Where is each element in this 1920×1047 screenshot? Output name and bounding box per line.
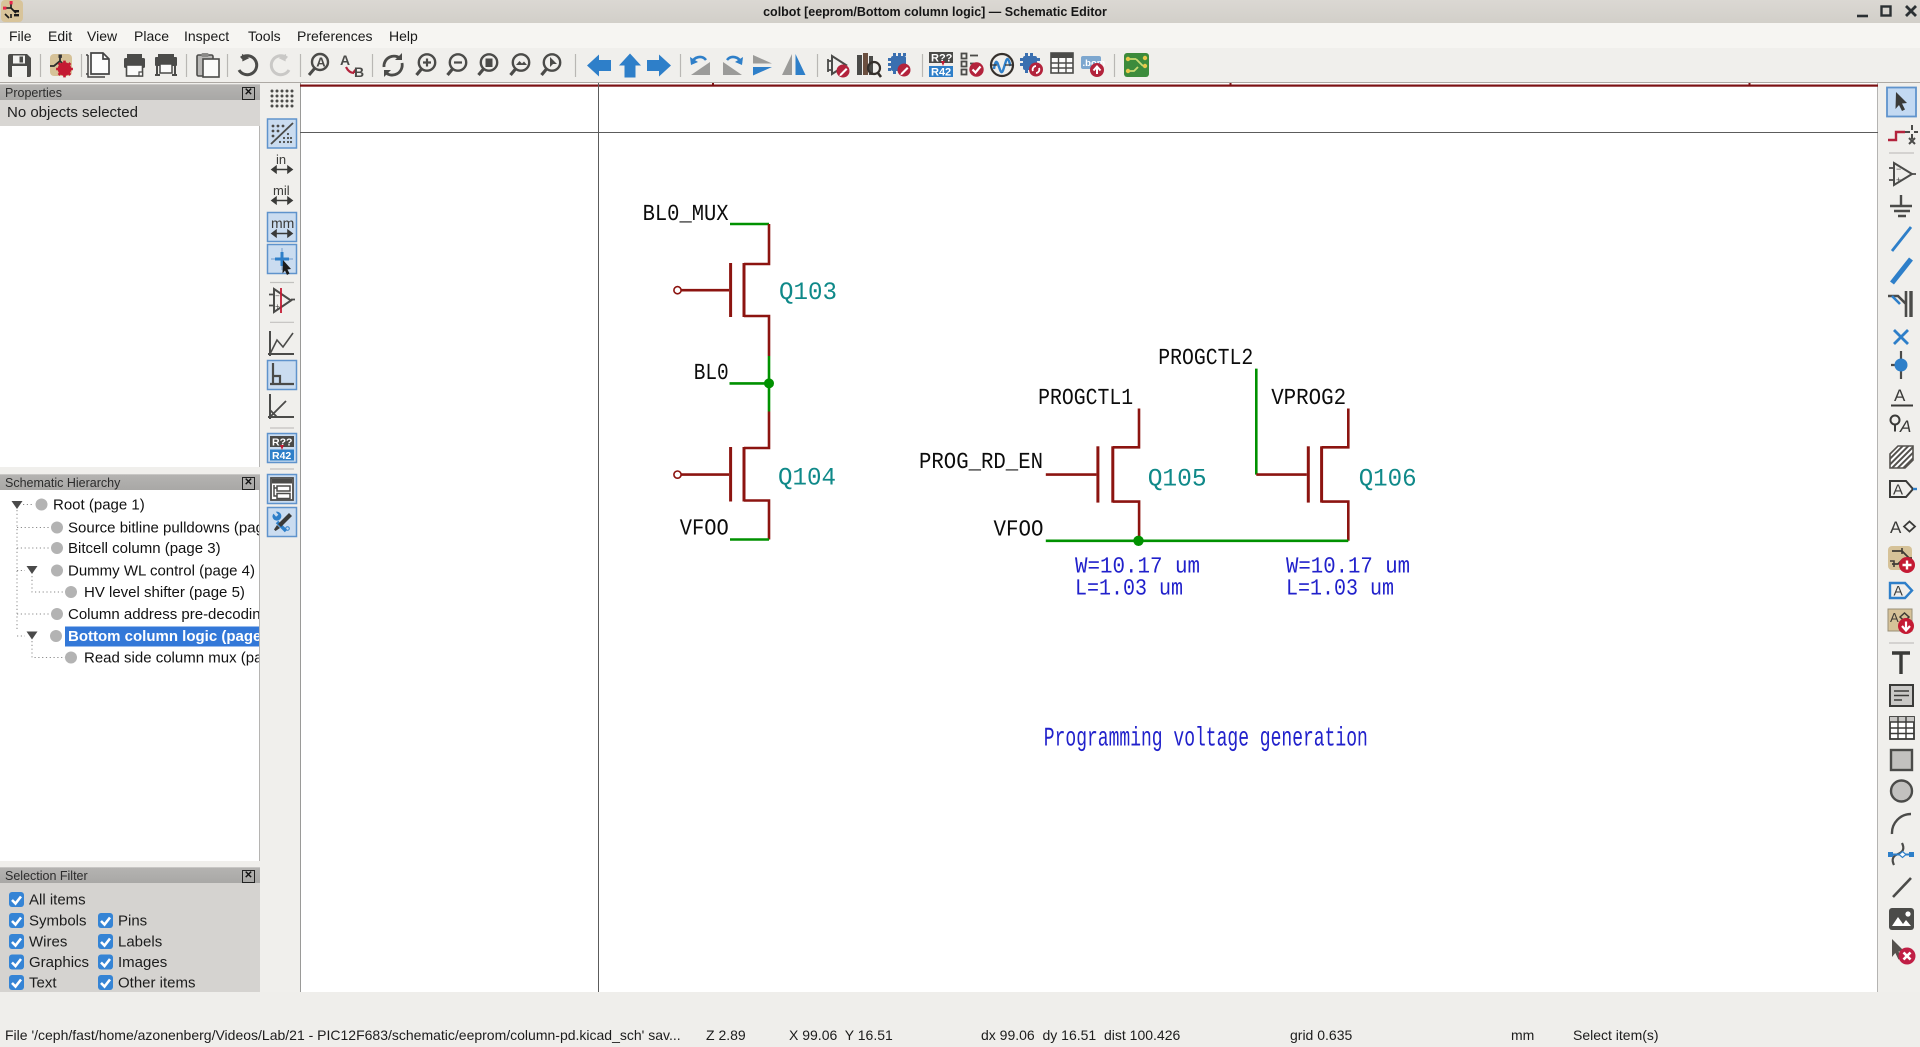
no connect tool bbox=[1894, 330, 1908, 344]
net label tool bbox=[1891, 386, 1913, 406]
svg-text:Column address pre-decoding: Column address pre-decoding bbox=[68, 606, 259, 623]
svg-text:Q104: Q104 bbox=[778, 464, 836, 493]
image tool bbox=[1889, 908, 1914, 930]
transistor Q103 bbox=[674, 224, 769, 356]
svg-text:A: A bbox=[340, 52, 350, 68]
transistor Q104 bbox=[674, 412, 769, 540]
channel Q106 bbox=[1320, 446, 1323, 502]
mirror h bbox=[782, 54, 806, 75]
svg-text:Bitcell column (page 3): Bitcell column (page 3) bbox=[68, 540, 221, 557]
zoom in bbox=[417, 54, 436, 75]
paste bbox=[197, 53, 219, 77]
unit mils bbox=[272, 183, 292, 204]
svg-text:Dummy WL control (page 4): Dummy WL control (page 4) bbox=[68, 563, 255, 580]
save bbox=[8, 54, 31, 77]
svg-text:Q105: Q105 bbox=[1148, 465, 1207, 494]
svg-text:L=1.03 um: L=1.03 um bbox=[1286, 575, 1394, 601]
svg-text:Pins: Pins bbox=[118, 913, 147, 930]
svg-text:Symbols: Symbols bbox=[29, 913, 87, 930]
browse libraries bbox=[857, 53, 881, 77]
arc tool bbox=[1892, 814, 1911, 834]
svg-text:PROGCTL1: PROGCTL1 bbox=[1038, 385, 1133, 411]
svg-text:Wires: Wires bbox=[29, 934, 67, 951]
gate bar Q104 bbox=[729, 447, 732, 502]
page setup bbox=[86, 53, 109, 77]
highlight net tool bbox=[1888, 125, 1918, 144]
hierarchical label tool bbox=[1890, 481, 1917, 499]
export bom bbox=[1081, 56, 1105, 77]
pin source Q105 bbox=[1113, 502, 1139, 541]
place symbol tool bbox=[1889, 163, 1916, 185]
svg-text:VFOO: VFOO bbox=[680, 515, 729, 541]
pin drain Q103 bbox=[744, 224, 769, 264]
svg-text:Bottom column logic (page: Bottom column logic (page bbox=[68, 628, 259, 645]
bom table bbox=[1051, 53, 1073, 73]
zoom fit objects bbox=[511, 54, 530, 75]
redo (disabled) bbox=[271, 52, 289, 74]
gate bar Q105 bbox=[1096, 446, 1099, 502]
bezier tool bbox=[1888, 843, 1914, 865]
svg-text:A: A bbox=[1890, 518, 1902, 537]
svg-text:+: + bbox=[275, 302, 280, 311]
junction tool bbox=[1891, 351, 1908, 379]
svg-text:Programming voltage generation: Programming voltage generation bbox=[1044, 724, 1368, 754]
junction BL0 bbox=[764, 378, 774, 388]
zoom fit page bbox=[479, 54, 498, 75]
mirror v bbox=[753, 55, 772, 76]
rotate cw bbox=[723, 57, 743, 75]
annotate bbox=[929, 52, 953, 79]
properties panel toggle (selected) bbox=[268, 508, 297, 537]
svg-text:Labels: Labels bbox=[118, 934, 162, 951]
pin drain Q106 bbox=[1322, 409, 1349, 448]
svg-text:BL0_MUX: BL0_MUX bbox=[643, 201, 729, 227]
import sheet pin tool bbox=[1888, 546, 1915, 573]
gate bar Q106 bbox=[1307, 446, 1310, 502]
assign footprints bbox=[1020, 53, 1043, 77]
svg-text:Root (page 1): Root (page 1) bbox=[53, 497, 145, 514]
table tool bbox=[1890, 717, 1914, 739]
svg-text:HV level shifter (page 5): HV level shifter (page 5) bbox=[84, 584, 245, 601]
svg-text:BL0: BL0 bbox=[694, 360, 729, 386]
pin gate Q104 bbox=[682, 473, 730, 476]
svg-text:A: A bbox=[1890, 610, 1899, 625]
svg-text:R42: R42 bbox=[931, 67, 951, 79]
full cursor toggle (selected) bbox=[268, 245, 297, 276]
channel Q105 bbox=[1111, 446, 1114, 502]
nav up bbox=[619, 54, 641, 78]
place power port tool bbox=[1890, 195, 1912, 216]
wire BL0 vertical bbox=[768, 356, 771, 412]
unit mm (selected) bbox=[268, 213, 297, 242]
svg-text:Read side column mux (pag: Read side column mux (pag bbox=[84, 650, 259, 667]
svg-text:Other items: Other items bbox=[118, 975, 196, 992]
svg-text:Source bitline pulldowns (pag: Source bitline pulldowns (pag bbox=[68, 520, 259, 537]
pin gate Q103 bbox=[682, 289, 730, 292]
text box tool bbox=[1890, 685, 1913, 706]
simulator bbox=[991, 54, 1013, 76]
svg-text:VPROG2: VPROG2 bbox=[1271, 385, 1346, 411]
45deg wires icon bbox=[268, 394, 294, 419]
pin source Q106 bbox=[1322, 502, 1349, 541]
junction VFOO bbox=[1133, 536, 1143, 546]
rotate ccw bbox=[690, 57, 710, 75]
pin-end circle gate Q104 bbox=[674, 471, 681, 478]
text tool bbox=[1892, 653, 1910, 674]
select tool (active) bbox=[1887, 88, 1916, 117]
pin gate Q106 bbox=[1256, 473, 1307, 476]
svg-text:Q106: Q106 bbox=[1359, 465, 1417, 494]
svg-text:mm: mm bbox=[271, 215, 294, 231]
svg-text:A: A bbox=[1894, 583, 1904, 599]
svg-text:All items: All items bbox=[29, 892, 86, 909]
rectangle tool bbox=[1891, 750, 1912, 770]
undo bbox=[239, 52, 257, 74]
Selection Filter panel bbox=[0, 867, 260, 884]
svg-text:+: + bbox=[1896, 175, 1901, 185]
svg-text:Text: Text bbox=[29, 975, 57, 992]
plot bbox=[155, 54, 177, 75]
global label tool bbox=[1891, 416, 1912, 437]
svg-text:A: A bbox=[1894, 386, 1906, 405]
svg-text:−: − bbox=[1896, 164, 1901, 174]
svg-text:VFOO: VFOO bbox=[994, 516, 1044, 542]
hidden pins (op-amp) icon bbox=[269, 288, 295, 313]
svg-text:B: B bbox=[354, 64, 364, 80]
pin source Q103 bbox=[744, 316, 769, 356]
svg-text:PROG_RD_EN: PROG_RD_EN bbox=[919, 449, 1043, 475]
sheet pin tool bbox=[1890, 518, 1915, 537]
wire BL0_MUX to Q103 drain bbox=[730, 223, 769, 226]
edit symbols bbox=[828, 56, 850, 78]
nav left bbox=[587, 55, 611, 77]
zoom selection bbox=[542, 54, 561, 75]
circle tool bbox=[1891, 781, 1912, 802]
grid dots icon bbox=[271, 90, 294, 108]
wire BL0 horizontal bbox=[730, 382, 770, 385]
unit inches bbox=[272, 152, 292, 173]
svg-text:A: A bbox=[1893, 482, 1903, 499]
wire PROGCTL2 to Q106 gate bbox=[1255, 369, 1258, 475]
nav right bbox=[647, 55, 671, 77]
find bbox=[309, 54, 328, 75]
svg-text:mil: mil bbox=[273, 183, 290, 198]
refresh bbox=[384, 53, 402, 77]
print bbox=[124, 54, 145, 76]
pin-end circle gate Q103 bbox=[674, 287, 681, 294]
channel Q104 bbox=[743, 447, 746, 502]
pin drain Q104 bbox=[744, 412, 769, 449]
transistor Q105 bbox=[1046, 409, 1139, 541]
svg-text:in: in bbox=[276, 152, 286, 167]
wire VFOO (right) bbox=[1046, 539, 1349, 542]
Properties panel bbox=[0, 84, 260, 101]
import hierarchical label tool bbox=[1890, 583, 1912, 599]
svg-text:Graphics: Graphics bbox=[29, 954, 89, 971]
transistor Q106 bbox=[1256, 409, 1348, 541]
edit footprints bbox=[888, 53, 911, 77]
svg-text:Q103: Q103 bbox=[779, 278, 837, 307]
place bus tool bbox=[1892, 259, 1911, 283]
hierarchical sheet tool bbox=[1890, 446, 1913, 468]
hierarchy panel toggle (selected) bbox=[268, 475, 297, 504]
svg-text:PROGCTL2: PROGCTL2 bbox=[1158, 345, 1253, 371]
svg-text:Images: Images bbox=[118, 954, 167, 971]
wire VFOO (left) bbox=[730, 538, 769, 541]
free angle wires icon bbox=[268, 331, 294, 356]
place wire tool bbox=[1892, 227, 1911, 251]
delete tool bbox=[1892, 939, 1916, 965]
svg-text:A: A bbox=[316, 55, 326, 70]
svg-text:R42: R42 bbox=[272, 450, 291, 462]
zoom out bbox=[448, 54, 467, 75]
channel Q103 bbox=[743, 263, 746, 317]
pin gate Q105 bbox=[1046, 473, 1097, 476]
hv wires icon (selected) bbox=[268, 361, 297, 390]
Schematic Hierarchy panel bbox=[0, 474, 260, 491]
pin source Q104 bbox=[744, 501, 769, 540]
crosshair cursor bbox=[300, 83, 1878, 992]
gate bar Q103 bbox=[729, 263, 732, 317]
svg-text:−: − bbox=[275, 292, 280, 301]
wire-to-bus entry tool bbox=[1888, 291, 1911, 317]
sheet frame top edge bbox=[300, 83, 1878, 87]
erc bbox=[962, 54, 984, 77]
pin drain Q105 bbox=[1113, 409, 1139, 448]
grid override icon (selected) bbox=[268, 119, 297, 148]
svg-text:A: A bbox=[1899, 417, 1911, 436]
line tool bbox=[1893, 878, 1911, 897]
annotate toggle (selected) bbox=[268, 434, 297, 463]
schematic setup bbox=[50, 54, 73, 77]
svg-text:L=1.03 um: L=1.03 um bbox=[1075, 575, 1183, 601]
find replace bbox=[340, 52, 364, 80]
open pcb bbox=[1124, 53, 1149, 77]
import sheet pin 2 tool bbox=[1888, 609, 1914, 634]
